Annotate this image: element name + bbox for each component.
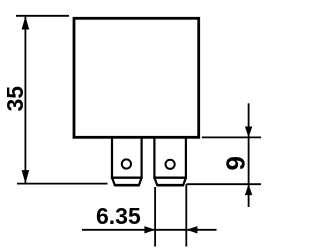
arrowhead down of 9 dimension (245, 127, 252, 138)
terminal pin P2 outline (154, 138, 186, 186)
svg-text:35: 35 (2, 86, 28, 112)
terminal pin P1 chamfer line (111, 176, 143, 178)
extension line left of 6.35 dimension (154, 187, 156, 247)
dimension line 6.35 (82, 229, 217, 231)
terminal pin P1 outline (112, 138, 142, 186)
terminal pin P2 bottom edge (157, 184, 184, 187)
arrowhead up of 35 dimension (22, 16, 30, 29)
hole in terminal pin P2 (166, 160, 175, 169)
extension line right of 6.35 dimension (185, 184, 187, 246)
svg-text:6.35: 6.35 (96, 203, 141, 229)
terminal pin P2 chamfer line (153, 176, 187, 178)
arrowhead up of 9 dimension (245, 184, 252, 195)
arrowhead left of 6.35 dimension (187, 226, 198, 233)
dimension line 9 (248, 103, 250, 207)
relay body outline (74, 18, 199, 137)
terminal pin P1 bottom edge (115, 184, 140, 187)
extension line top of 35 dimension (16, 15, 69, 17)
arrowhead down of 35 dimension (22, 170, 30, 183)
svg-text:9: 9 (221, 156, 251, 170)
extension line top of 9 dimension (202, 136, 261, 138)
extension line bottom of 35 dimension (17, 183, 108, 185)
extension line bottom of 9 dimension (187, 183, 261, 185)
arrowhead right of 6.35 dimension (144, 226, 155, 233)
dimension line 35 (24, 17, 26, 183)
hole in terminal pin P1 (122, 159, 131, 168)
